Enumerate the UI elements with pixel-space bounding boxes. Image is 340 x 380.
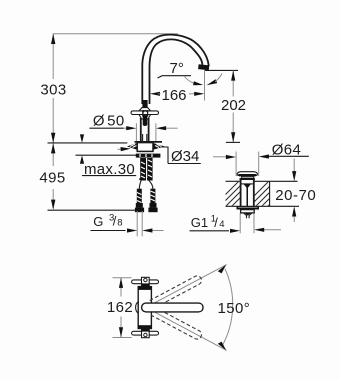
G1 1/4 extension lines <box>239 214 241 234</box>
solid spout stadium <box>142 303 203 312</box>
G1 1/4 right arrow <box>263 229 281 231</box>
svg-text:G1: G1 <box>191 215 208 230</box>
escutcheon right wing <box>153 143 164 150</box>
vertical extension at outlet axis <box>204 70 206 100</box>
angle leg lower <box>147 308 227 351</box>
dim 202 vertical line <box>232 70 234 96</box>
max30 arrow down above counter <box>81 136 83 140</box>
escutcheon top line <box>135 141 163 143</box>
handle lower flare <box>139 115 151 120</box>
label Ø34 leader from escutcheon <box>162 147 169 164</box>
7° leader arc to arrow <box>184 76 194 83</box>
svg-text:20-70: 20-70 <box>275 187 316 204</box>
counter section bottom line <box>226 205 300 207</box>
top handle bar <box>132 280 159 284</box>
G 3/8 extension lines <box>136 211 138 236</box>
dashed spout lower position <box>150 307 203 341</box>
G 3/8 right arrow <box>152 230 164 232</box>
spout outer curve <box>142 35 209 104</box>
spout outlet aerator block <box>198 64 209 70</box>
left hose threaded rod <box>137 189 142 203</box>
pivot circle bulge left <box>136 302 139 314</box>
arrow down at counter line (303) <box>51 133 55 143</box>
Ø64 right arrow and underline <box>267 155 309 157</box>
dim 162 extension top <box>113 277 132 279</box>
202 arrow up <box>231 70 235 80</box>
drain cap dome <box>237 172 258 175</box>
drain washer <box>241 210 255 213</box>
7° left arrowhead <box>193 81 203 85</box>
top handle circle <box>144 278 147 281</box>
162 arrow down <box>119 327 123 337</box>
bottom handle bar <box>132 331 159 335</box>
dim Ø50 right arrow <box>166 127 178 129</box>
Ø64 left arrow <box>213 156 227 158</box>
dimension line 303/495 vertical <box>52 34 54 79</box>
162 arrow up <box>119 278 123 288</box>
drain shoulder line <box>241 183 254 185</box>
top-view body rectangle <box>138 287 151 329</box>
leader arrow pointing at escutcheon left tip <box>118 148 125 150</box>
threaded shank left strip <box>140 158 146 181</box>
drain cap inset <box>242 176 254 178</box>
svg-text:162: 162 <box>107 299 133 316</box>
arc arrowhead upper <box>218 265 226 274</box>
arrow down at hose line (495) <box>51 200 55 210</box>
dim 166 left arrow <box>150 92 160 96</box>
left hose end cap <box>136 203 143 208</box>
escutcheon centre block <box>137 143 153 152</box>
extension line top of spout <box>53 33 178 35</box>
handle hub circle <box>143 111 148 116</box>
handle upper spoke <box>142 100 147 108</box>
locking ring below escutcheon <box>136 154 161 158</box>
swivel arc 150° <box>223 269 233 346</box>
dashed spout upper position <box>150 274 203 308</box>
svg-text:Ø34: Ø34 <box>171 148 199 165</box>
body rect dark band bottom <box>138 325 151 328</box>
svg-text:303: 303 <box>40 82 66 99</box>
threaded shank right strip <box>147 158 152 181</box>
spout inner curve <box>150 39 203 104</box>
svg-text:Ø50: Ø50 <box>93 112 125 129</box>
max30 lower line <box>76 154 140 156</box>
hose bottom extension line <box>48 209 136 211</box>
svg-text:/: / <box>113 214 117 229</box>
right hatch block <box>238 180 294 212</box>
max30 arrow up below lower line <box>80 155 84 164</box>
drain cap flange band <box>236 174 258 176</box>
arrow up below counter line (495) <box>51 143 55 153</box>
arc arrowhead lower <box>218 342 226 351</box>
right hose curve <box>149 180 153 189</box>
escutcheon left wing <box>127 143 137 150</box>
202 arrow down <box>231 132 235 142</box>
hose connectors at shank end <box>139 178 143 180</box>
right hose end cap <box>150 203 157 208</box>
7° leader underline <box>158 76 192 78</box>
svg-text:202: 202 <box>221 97 246 114</box>
left hose curve <box>139 180 141 189</box>
right hose threaded rod <box>150 189 155 203</box>
counter section top line <box>226 180 241 182</box>
svg-text:8: 8 <box>117 217 122 228</box>
angle leg upper <box>147 265 227 308</box>
bottom handle hub <box>142 328 150 337</box>
dim 162 vertical line <box>120 278 122 297</box>
body rect dark band top <box>138 287 151 290</box>
arrow up at top (303) <box>51 34 55 44</box>
svg-text:Ø64: Ø64 <box>272 141 302 158</box>
outlet extension line <box>205 69 238 71</box>
drain plug funnel and stem <box>244 184 252 206</box>
Ø64 extension lines <box>235 152 237 176</box>
svg-text:495: 495 <box>39 170 65 187</box>
svg-text:150°: 150° <box>218 300 251 317</box>
20-70 lower dim line with up arrow <box>293 213 295 222</box>
drain body walls <box>240 180 242 207</box>
drain cap base block <box>240 178 255 180</box>
dim Ø50 left arrow <box>124 127 128 129</box>
20-70 upper dim line with down arrow <box>293 159 295 175</box>
handle cross bar <box>131 111 159 115</box>
G 3/8 left arrow <box>127 228 137 232</box>
handle hub <box>142 110 148 116</box>
7° right arc <box>215 73 222 82</box>
dim 162 extension bottom <box>113 337 132 339</box>
body tube <box>140 118 142 142</box>
svg-text:/: / <box>214 215 218 230</box>
drain locknut <box>237 207 260 210</box>
handle lower spoke <box>143 116 148 126</box>
shank thread marks <box>141 160 152 178</box>
svg-text:4: 4 <box>219 219 224 230</box>
Ø50 extension lines <box>135 123 137 141</box>
top handle hub <box>142 277 150 286</box>
7° right arrowhead <box>207 79 218 85</box>
body inner lines <box>142 134 144 142</box>
counter extension right <box>226 141 240 143</box>
bottom handle circle <box>144 333 147 336</box>
svg-text:G: G <box>93 214 103 229</box>
svg-text:166: 166 <box>162 87 187 104</box>
drain taper and tailpiece tip <box>244 213 252 218</box>
svg-text:7°: 7° <box>170 60 184 77</box>
G1 1/4 left arrow <box>230 229 240 233</box>
left hatch block <box>208 180 258 212</box>
dim 166 right arrow <box>189 93 196 95</box>
handle escutcheon flare left <box>139 108 151 111</box>
counter top line <box>48 142 128 144</box>
